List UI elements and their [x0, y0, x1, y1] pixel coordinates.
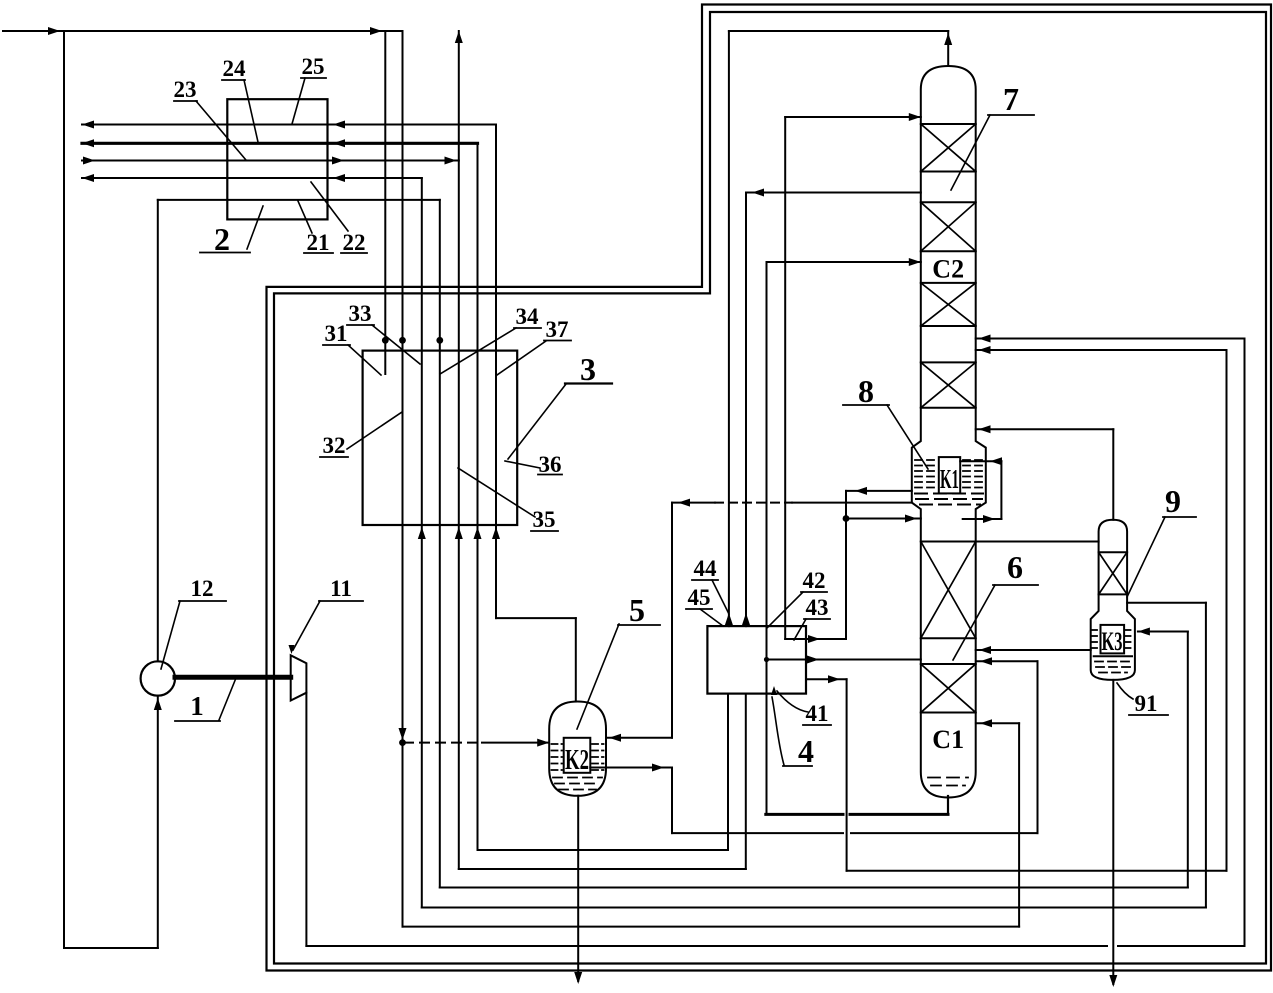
arrow stream3 mid	[332, 157, 344, 165]
svg-text:K1: K1	[940, 464, 959, 494]
column section boundary lines	[921, 123, 976, 125]
wire side draw y=192.5	[746, 192, 921, 194]
wire stream 4 y=178	[82, 177, 422, 179]
wire column overhead	[947, 31, 949, 66]
wire feed into column y=350	[976, 349, 1227, 351]
wire through-line x=766.5	[766, 262, 768, 814]
wire pump suction riser	[157, 696, 159, 949]
node junction dot x=385	[382, 337, 389, 344]
wire top feed header y=31	[3, 30, 403, 32]
svg-text:37: 37	[546, 317, 569, 342]
wire line x=477.5 (stream 2 leg)	[477, 143, 479, 850]
wire K1 outlet right y=461.2	[960, 460, 1001, 462]
svg-text:21: 21	[307, 230, 330, 255]
column packing X sections	[921, 124, 976, 172]
wire feed into column y=338.5	[976, 338, 1245, 340]
wire drop x=846.6	[846, 679, 848, 870]
node junction dot x=439.8	[436, 337, 443, 344]
svg-text:31: 31	[325, 321, 348, 346]
svg-text:36: 36	[539, 452, 562, 477]
wire K2 right feed y=737.8	[606, 737, 672, 739]
reboiler K1 box	[939, 457, 960, 493]
wire riser x=1187.8	[1187, 632, 1189, 888]
wire vessel 9 side line y=602.8	[1127, 602, 1206, 604]
svg-text:C1: C1	[932, 725, 964, 754]
wire main column feed y=946	[306, 945, 1107, 947]
arrow into column right y=350	[979, 346, 991, 354]
node junction dot x=402.5 upper	[399, 337, 406, 344]
svg-text:4: 4	[798, 733, 814, 769]
arrow into column right y=429.3	[979, 425, 991, 433]
svg-text:9: 9	[1165, 483, 1181, 519]
wire inner frame loop	[274, 12, 1266, 964]
wire K3 bottom outlet	[1112, 680, 1114, 984]
svg-text:43: 43	[806, 595, 829, 620]
arrow K3 bottoms exit	[1109, 975, 1117, 987]
wire K3 to column y=650	[976, 649, 1091, 651]
wire run y=907.5 from vessel 9	[422, 907, 1206, 909]
wire run y=850	[478, 849, 729, 851]
wire feed into column y=723.2	[976, 722, 1019, 724]
svg-text:23: 23	[174, 77, 197, 102]
arrow stream2 out left	[82, 139, 94, 147]
shaft line 1	[175, 675, 291, 680]
pump 12 circle	[141, 661, 175, 695]
wire K1 left loop top y=491	[846, 490, 912, 492]
wire riser x=1226.5	[1226, 350, 1228, 871]
wire feed y=117 into column	[785, 116, 921, 118]
wire riser x=728 to cooler 4	[727, 694, 729, 850]
wire K2 outlet y=767.5	[590, 767, 672, 769]
arrow on jog y=639	[808, 635, 820, 643]
wire riser x=745.8 to cooler 4	[745, 694, 747, 869]
arrow up into exchanger 3 bottom x=421.8	[418, 527, 426, 539]
svg-text:91: 91	[1135, 691, 1158, 716]
heat-exchanger 2 shell	[227, 99, 327, 219]
wire drop x=1205.9	[1205, 603, 1207, 908]
cooler 4 shell	[707, 626, 806, 694]
K3 liquid hatching	[1092, 629, 1100, 631]
svg-text:6: 6	[1007, 549, 1023, 585]
wire vent line x=458.8	[458, 31, 460, 869]
arrow into K2 left	[537, 739, 549, 747]
side column 9 shell	[1091, 520, 1135, 680]
wire overhead run y=31	[729, 30, 948, 32]
arrow on draw y=519	[983, 515, 995, 523]
wire run y=870.7	[847, 870, 1227, 872]
wire into column y=518.5	[846, 518, 921, 520]
arrow stream3 end	[445, 157, 457, 165]
arrow K2 outlet	[652, 764, 664, 772]
wire run y=869	[459, 868, 746, 870]
arrow stream3 in	[83, 157, 95, 165]
reboiler K3 box	[1101, 625, 1125, 654]
wire overhead drop x=728.9	[728, 31, 730, 626]
wire drop x=785.2	[784, 117, 786, 639]
wire run y=887.5 to K3	[440, 887, 1188, 889]
arrow stream4 mid	[333, 174, 345, 182]
wire feed into column y=661.2	[976, 660, 1038, 662]
arrow top feed right	[370, 27, 382, 35]
svg-text:C2: C2	[932, 255, 964, 284]
column 7/6 shell	[912, 66, 986, 798]
vessel 5 shell	[549, 702, 606, 796]
svg-text:42: 42	[803, 568, 826, 593]
wire C1 bottoms thick y=814.4	[766, 813, 843, 816]
wire jog y=639	[785, 638, 846, 640]
arrow into K3 right	[1138, 628, 1150, 636]
arrow into pump bottom	[154, 698, 162, 710]
side column 9 packing X	[1099, 552, 1128, 594]
svg-text:1: 1	[190, 691, 204, 721]
arrow K1 loop left	[855, 487, 867, 495]
wire K1 header y=502.6	[672, 502, 715, 504]
wire branch x=385 into exchanger 3	[384, 31, 386, 374]
wire line x=421.8 (stream 4 / vessel 9 return)	[421, 178, 423, 908]
wire riser x=1019.1	[1018, 723, 1020, 926]
arrow on feed y=659.5	[807, 656, 819, 664]
wire K3 feed y=631.5	[1138, 631, 1188, 633]
svg-text:K2: K2	[565, 744, 589, 776]
wire C1 bottom outlet	[947, 796, 949, 814]
wire pump top line x=158	[157, 200, 159, 661]
svg-text:33: 33	[349, 301, 372, 326]
arrow into column right y=661	[980, 657, 992, 665]
wire K2 side feed dashed y=742.6	[404, 742, 482, 744]
arrow into column right y=650	[979, 646, 991, 654]
svg-text:34: 34	[516, 304, 540, 329]
arrow vent up	[455, 31, 463, 43]
svg-text:5: 5	[629, 592, 645, 628]
wire bottom-left run y=948	[64, 947, 158, 949]
svg-text:3: 3	[580, 351, 596, 387]
svg-text:44: 44	[694, 556, 718, 581]
arrow into column left y=518.5	[905, 515, 917, 523]
heat-exchanger 3 shell	[363, 351, 518, 525]
wire line x=496 (stream 1 / K2 vapor)	[495, 125, 497, 619]
wire drop x=746 to cooler 4	[745, 193, 747, 627]
wire stream 1 y=124.5	[82, 124, 496, 126]
wire column draw y=519	[963, 518, 1002, 520]
arrow stream1 out left	[82, 121, 94, 129]
wire main feed line x=402.5	[402, 31, 404, 927]
arrow overhead up	[944, 33, 952, 45]
K2 liquid hatching	[552, 743, 563, 745]
wire line x=439.8 (to K3)	[439, 200, 441, 888]
arrow into cooler 4 top x=728.9	[725, 613, 733, 625]
wire riser x=1037.5	[1037, 661, 1039, 833]
arrow down at K2 branch	[399, 728, 407, 740]
svg-text:11: 11	[330, 576, 352, 601]
C1 sump liquid dashes	[928, 777, 968, 779]
arrow up into exchanger 3 bottom x=496	[492, 527, 500, 539]
arrow K2 bottoms exit	[574, 972, 582, 984]
arrow on y=679.3	[828, 675, 840, 683]
arrow stream4 out left	[82, 174, 94, 182]
arrow on side draw y=192.5	[752, 189, 764, 197]
wire K2 top feed drop	[575, 618, 577, 701]
side column 9 section lines	[1099, 551, 1128, 553]
wire feed y=659.5 into column	[767, 659, 921, 661]
wire cooler4 to vessel9 y=679.3	[806, 678, 847, 680]
svg-text:25: 25	[302, 54, 325, 79]
arrow into column left y=262	[909, 258, 921, 266]
wire riser-drop x=672 lower	[671, 768, 673, 834]
svg-text:24: 24	[223, 56, 247, 81]
arrow stream2 mid	[333, 139, 345, 147]
arrow into column right y=723.2	[980, 719, 992, 727]
wire feed y=262 into column	[767, 261, 921, 263]
arrow up into exchanger 3 bottom x=477.5	[474, 527, 482, 539]
svg-text:45: 45	[688, 585, 711, 610]
arrow top feed left	[48, 27, 60, 35]
wire compressor outlet drop x=306	[305, 693, 307, 946]
wire stream 2 y=143.3 thick	[82, 142, 478, 145]
wire outer frame loop	[267, 5, 1272, 971]
svg-text:K3: K3	[1102, 627, 1123, 656]
svg-text:35: 35	[533, 507, 556, 532]
node junction dot K2 branch	[399, 739, 406, 746]
arrow into cooler 4 top x=746	[742, 613, 750, 625]
wire stream 3 y=160.5	[82, 160, 459, 162]
wire left down-leg x=64	[63, 31, 65, 948]
wire K2 feed jog y=618	[496, 617, 576, 619]
svg-text:12: 12	[191, 576, 214, 601]
reboiler K2 box	[564, 738, 591, 773]
arrow into column right y=338.5	[979, 335, 991, 343]
svg-text:32: 32	[323, 433, 346, 458]
arrow into column left y=117	[909, 113, 921, 121]
wire main column feed riser x=1244.5	[1244, 339, 1246, 947]
arrow into K2 right	[609, 734, 621, 742]
wire riser x=846 to K1	[845, 491, 847, 639]
svg-text:22: 22	[343, 230, 366, 255]
node junction dot x=846	[843, 515, 850, 522]
wire K1 right drop x=1001.4	[1000, 461, 1002, 519]
svg-text:41: 41	[806, 701, 829, 726]
arrow K1 header left end	[678, 499, 690, 507]
svg-text:8: 8	[858, 373, 874, 409]
wire column side draw y=541.5	[976, 541, 1099, 543]
node junction dot x=766.5	[764, 657, 769, 662]
wire vessel 9 vapor riser	[1112, 429, 1114, 519]
K1 liquid hatching	[915, 459, 936, 461]
arrow stream1 mid	[333, 121, 345, 129]
wire run y=926.6	[403, 926, 1020, 928]
driver 11 trapezoid	[291, 655, 307, 700]
wire K2 bottom outlet	[577, 796, 579, 981]
wire bottoms run y=833	[672, 832, 843, 834]
wire cross header y=200	[158, 199, 440, 201]
arrow up into exchanger 3 bottom x=458.8	[455, 527, 463, 539]
svg-text:7: 7	[1003, 81, 1019, 117]
wire vapor to column y=429.3	[976, 428, 1114, 430]
arrow into K1 right	[990, 457, 1002, 465]
wire drop x=672 from K1 header	[671, 503, 673, 738]
